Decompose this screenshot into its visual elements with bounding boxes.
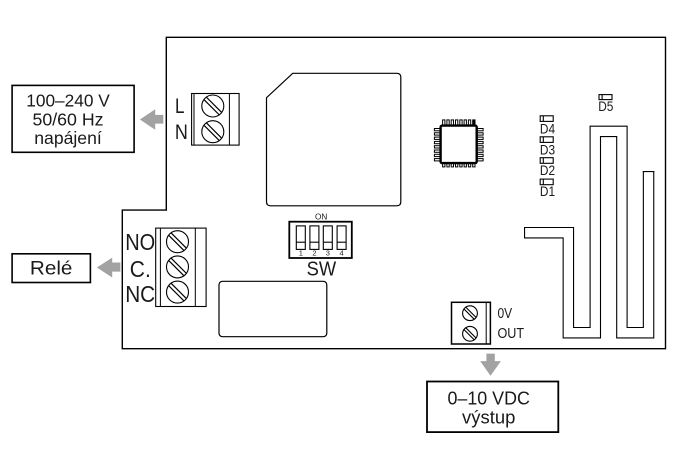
svg-text:D5: D5 (598, 98, 613, 114)
svg-text:výstup: výstup (462, 406, 515, 427)
svg-text:3: 3 (326, 248, 330, 257)
svg-text:50/60 Hz: 50/60 Hz (33, 109, 104, 129)
svg-text:OUT: OUT (498, 326, 525, 342)
svg-text:L: L (175, 94, 185, 118)
svg-text:D4: D4 (540, 120, 555, 136)
svg-text:Relé: Relé (30, 258, 73, 280)
svg-text:0V: 0V (498, 306, 513, 322)
svg-text:100–240 V: 100–240 V (26, 91, 110, 111)
svg-text:C.: C. (130, 256, 151, 282)
svg-text:1: 1 (299, 248, 303, 257)
svg-text:napájení: napájení (34, 128, 102, 148)
svg-text:ON: ON (315, 213, 327, 222)
svg-text:4: 4 (340, 248, 344, 257)
svg-text:2: 2 (312, 248, 316, 257)
svg-text:NC: NC (125, 281, 155, 307)
svg-text:D1: D1 (540, 183, 555, 199)
svg-text:NO: NO (125, 229, 155, 255)
svg-text:N: N (175, 120, 188, 144)
svg-text:SW: SW (307, 259, 337, 281)
svg-text:D2: D2 (540, 162, 555, 178)
svg-text:D3: D3 (540, 141, 555, 157)
